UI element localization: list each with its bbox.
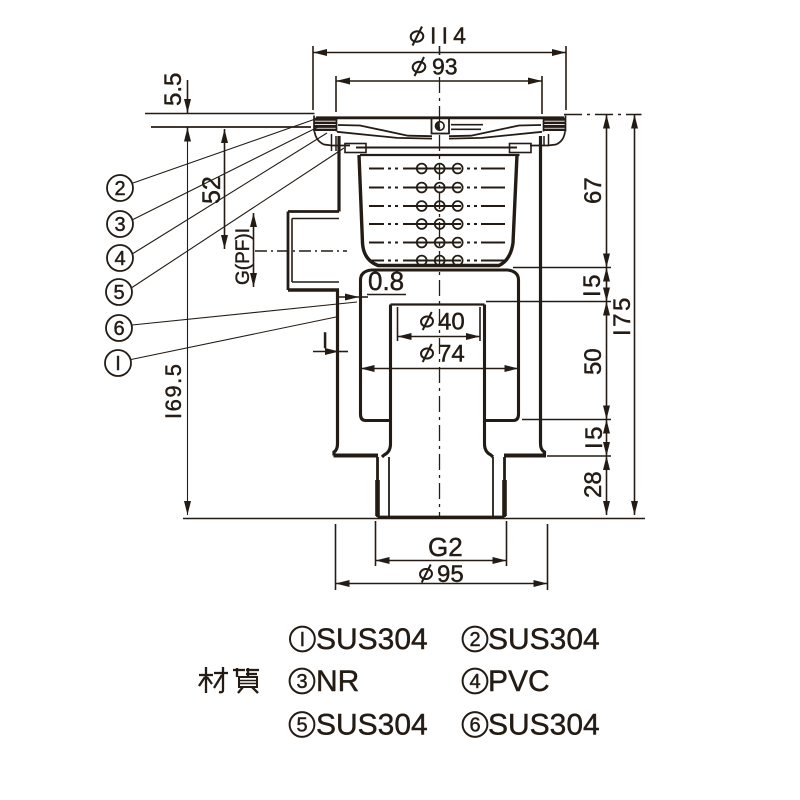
質 — [236, 668, 238, 677]
svg-text:II4: II4 — [430, 23, 471, 49]
strainer basket — [356, 148, 520, 266]
bottom reference line — [183, 518, 645, 520]
svg-text:SUS304: SUS304 — [488, 709, 600, 742]
material legend — [199, 623, 600, 742]
riser tube (outlet standpipe) — [382, 305, 493, 458]
svg-text:I5: I5 — [579, 272, 606, 297]
dimension 5.5 — [160, 73, 188, 141]
svg-text:50: 50 — [580, 348, 607, 375]
body outer wall left — [334, 136, 339, 456]
svg-text:SUS304: SUS304 — [316, 709, 428, 742]
dimension 1 (wall thickness) — [313, 328, 348, 353]
dimension phi93 — [336, 54, 542, 115]
svg-text:93: 93 — [432, 54, 458, 80]
dimension phi114 — [313, 23, 566, 111]
svg-text:I: I — [322, 328, 328, 353]
lid (top cover) — [316, 118, 564, 139]
right chain dimension line — [606, 115, 608, 516]
dimension 0.8 — [339, 266, 406, 297]
callout 3 — [107, 126, 320, 237]
svg-text:3: 3 — [296, 671, 307, 693]
svg-text:95: 95 — [437, 561, 464, 588]
side port G(PF)1 socket — [288, 212, 339, 291]
dimension line 175 — [634, 115, 636, 516]
row 2 — [290, 665, 550, 698]
svg-text:74: 74 — [438, 341, 465, 368]
svg-text:G(PF)I: G(PF)I — [233, 228, 254, 285]
basket holes — [417, 164, 463, 266]
body outer wall right — [541, 136, 545, 456]
svg-text:28: 28 — [580, 471, 607, 498]
svg-text:2: 2 — [469, 629, 480, 651]
floor line right (dash-dot) — [564, 114, 642, 116]
svg-text:I5: I5 — [581, 424, 608, 449]
kanji 材質 drawn as strokes — [199, 667, 259, 693]
right dimension labels — [579, 177, 636, 498]
level extension lines right — [486, 268, 611, 457]
svg-text:SUS304: SUS304 — [316, 623, 428, 656]
材 — [199, 674, 213, 676]
callout 6 — [106, 302, 357, 341]
callout 4 — [107, 133, 327, 271]
callout 1 — [105, 317, 336, 376]
svg-text:I75: I75 — [609, 295, 636, 336]
dimension G2 — [376, 521, 507, 566]
svg-text:5.5: 5.5 — [160, 73, 187, 106]
svg-text:I: I — [300, 629, 306, 651]
dimension phi95 — [336, 524, 548, 590]
dimension phi40 — [398, 307, 481, 341]
outlet pipe with G2 thread — [378, 457, 505, 517]
inner cup (0.8 liner) — [361, 270, 519, 421]
svg-text:I69.5: I69.5 — [161, 363, 186, 419]
dimension 169.5 — [161, 131, 188, 515]
svg-text:0.8: 0.8 — [368, 266, 404, 296]
svg-text:NR: NR — [316, 665, 359, 698]
svg-text:SUS304: SUS304 — [488, 623, 600, 656]
frame ledges and lugs — [332, 144, 548, 153]
svg-text:3: 3 — [114, 214, 125, 236]
svg-text:4: 4 — [469, 671, 480, 693]
callout 2 — [107, 120, 314, 202]
floor line left — [145, 114, 315, 128]
dimension 52 — [198, 129, 226, 249]
bottom shoulder — [334, 454, 547, 458]
svg-text:G2: G2 — [428, 532, 463, 562]
lid centre boss — [432, 118, 450, 134]
svg-text:6: 6 — [469, 715, 480, 737]
svg-text:4: 4 — [114, 248, 125, 270]
svg-text:40: 40 — [438, 309, 465, 336]
svg-text:I: I — [115, 353, 121, 375]
port centerline — [255, 250, 347, 252]
centerline vertical — [439, 46, 441, 518]
lid rim left block — [314, 116, 337, 152]
callout 5 — [106, 148, 344, 305]
svg-text:5: 5 — [113, 282, 124, 304]
svg-text:67: 67 — [580, 177, 607, 204]
lid slot lines — [451, 124, 483, 126]
svg-text:5: 5 — [296, 715, 307, 737]
dimension phi74 — [361, 341, 519, 369]
row 3 — [290, 709, 600, 742]
row 1 — [290, 623, 600, 656]
dimension G(PF)1 — [233, 213, 254, 287]
svg-text:2: 2 — [114, 178, 125, 200]
lid rim right block — [544, 116, 566, 147]
basket slot rows — [369, 169, 508, 261]
svg-text:6: 6 — [113, 318, 124, 340]
svg-text:PVC: PVC — [488, 665, 550, 698]
